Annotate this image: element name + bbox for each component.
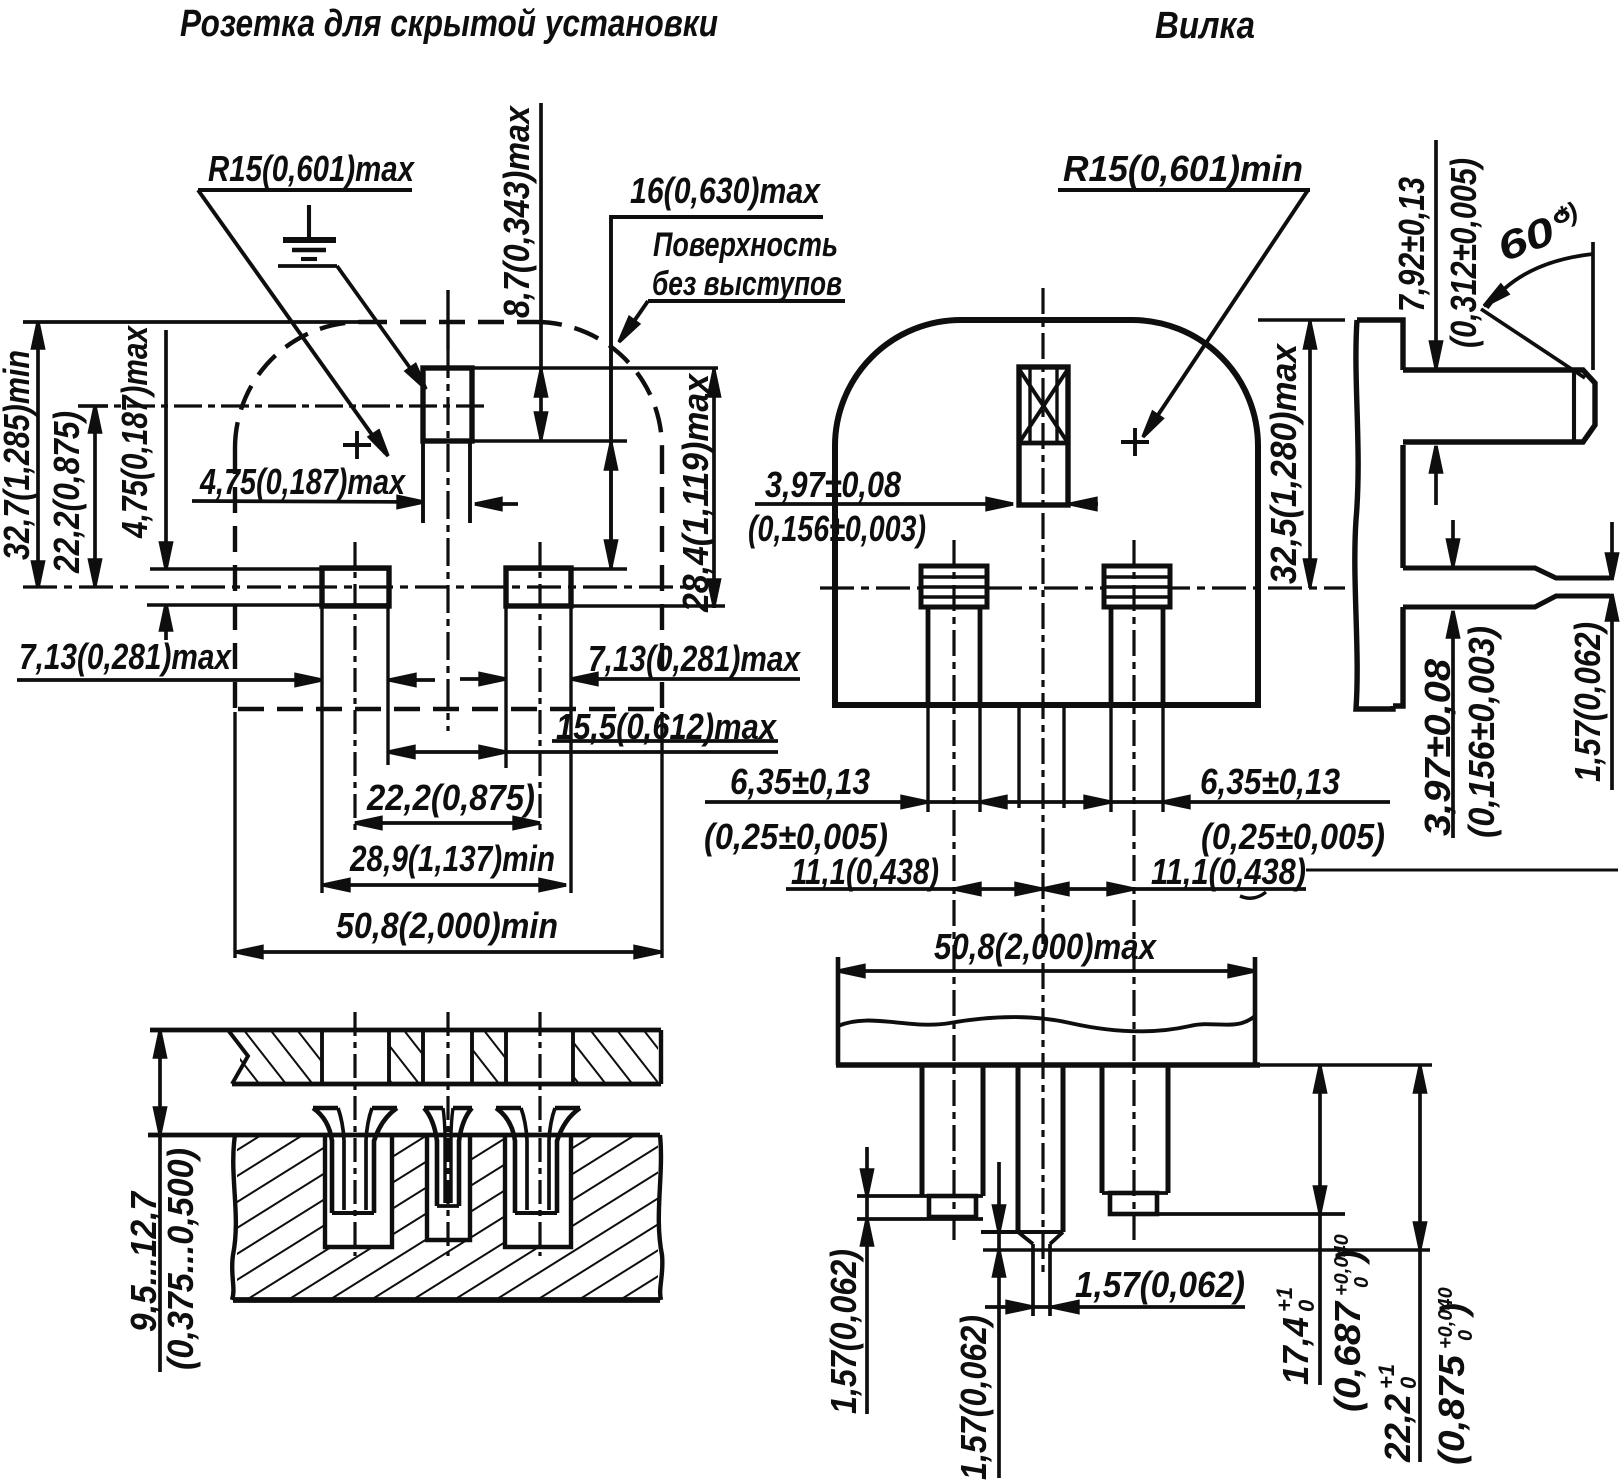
plug horizontal centerline xyxy=(820,586,1345,589)
wall plate outline xyxy=(150,1028,661,1033)
svg-text:22,2: 22,2 xyxy=(1377,1394,1418,1463)
plug body bottom view xyxy=(836,957,841,1065)
svg-text:+0,040: +0,040 xyxy=(1435,1287,1457,1349)
svg-text:22,2(0,875): 22,2(0,875) xyxy=(46,411,87,574)
svg-text:без выступов: без выступов xyxy=(652,265,842,303)
slot walls through plate xyxy=(320,1030,324,1084)
socket outline dashed dome xyxy=(235,322,662,712)
svg-text:0: 0 xyxy=(1294,1299,1319,1312)
svg-text:(0,875: (0,875 xyxy=(1431,1354,1472,1465)
svg-text:1,57(0,062): 1,57(0,062) xyxy=(1075,1264,1245,1305)
svg-text:1,57(0,062): 1,57(0,062) xyxy=(823,1249,864,1414)
svg-text:32,5(1,280)max: 32,5(1,280)max xyxy=(1263,342,1304,584)
svg-text:4,75(0,187)max: 4,75(0,187)max xyxy=(114,324,155,538)
svg-text:Поверхность: Поверхность xyxy=(653,226,838,264)
cavity left xyxy=(325,1135,392,1247)
svg-text:(0,312±0,005): (0,312±0,005) xyxy=(1443,158,1484,348)
slot centerlines vertical xyxy=(353,542,356,835)
svg-text:(0,156±0,003): (0,156±0,003) xyxy=(1461,626,1502,838)
top extension line for 32,5 xyxy=(1258,318,1345,321)
section: wall plate hatched xyxy=(240,1032,322,1082)
centre cross of socket corner radius xyxy=(343,443,371,447)
svg-text:(0,687: (0,687 xyxy=(1327,1300,1368,1412)
svg-text:32,7(1,285)min: 32,7(1,285)min xyxy=(0,350,37,560)
earth slot of socket xyxy=(423,366,718,369)
section centerlines xyxy=(353,1012,356,1256)
svg-text:8,7(0,343)max: 8,7(0,343)max xyxy=(496,104,537,318)
svg-text:22,2(0,875): 22,2(0,875) xyxy=(366,777,535,818)
svg-text:1,57(0,062): 1,57(0,062) xyxy=(1567,622,1608,782)
centre cross of plug corner radius xyxy=(1121,440,1149,444)
svg-text:50,8(2,000)min: 50,8(2,000)min xyxy=(336,905,558,946)
extension sides of socket to 50,8 dimension xyxy=(233,712,236,958)
left pin of plug xyxy=(921,566,987,607)
svg-text:7,92±0,13: 7,92±0,13 xyxy=(1391,177,1432,312)
left pin bottom view xyxy=(920,1065,925,1196)
cavity right xyxy=(505,1135,571,1247)
svg-text:28,9(1,137)min: 28,9(1,137)min xyxy=(349,838,555,879)
contact tube left xyxy=(313,1108,397,1213)
svg-text:9,5...12,7: 9,5...12,7 xyxy=(123,1190,164,1332)
ground symbol xyxy=(283,205,336,259)
socket body outline xyxy=(148,1133,660,1138)
cavity middle xyxy=(427,1135,470,1240)
earth pin of plug xyxy=(1019,367,1068,505)
contact tube right xyxy=(496,1108,580,1213)
leader to R15 centre xyxy=(198,190,385,453)
svg-text:R15(0,601)max: R15(0,601)max xyxy=(208,148,416,189)
svg-text:Вилка: Вилка xyxy=(1155,5,1255,47)
svg-text:+0,040: +0,040 xyxy=(1331,1234,1353,1296)
top extension line xyxy=(23,320,365,324)
right pin of plug xyxy=(1104,566,1170,607)
earth pin bottom view xyxy=(1016,1065,1021,1232)
left pin centerline xyxy=(952,540,955,1240)
svg-text:11,1(0,438): 11,1(0,438) xyxy=(791,851,939,892)
earth pin side view xyxy=(1403,370,1595,442)
left slot of socket xyxy=(150,567,389,570)
svg-text:1,57(0,062): 1,57(0,062) xyxy=(953,1315,994,1480)
svg-text:7,13(0,281)max: 7,13(0,281)max xyxy=(588,638,802,679)
svg-text:R15(0,601)min: R15(0,601)min xyxy=(1063,148,1303,189)
svg-text:(0,156±0,003): (0,156±0,003) xyxy=(748,508,926,549)
pin edge extension lines below plug xyxy=(926,707,929,812)
svg-text:28,4(1,119)max: 28,4(1,119)max xyxy=(675,372,716,613)
svg-text:16(0,630)max: 16(0,630)max xyxy=(630,170,822,211)
svg-text:11,1(0,438): 11,1(0,438) xyxy=(1151,851,1306,892)
earth pin centerline xyxy=(1041,288,1044,1272)
right pin bottom view xyxy=(1100,1065,1105,1193)
svg-text:0: 0 xyxy=(1351,1277,1373,1288)
svg-text:6,35±0,13: 6,35±0,13 xyxy=(1200,761,1340,802)
slot extension lines downward xyxy=(320,606,323,893)
svg-text:0: 0 xyxy=(1455,1330,1477,1341)
ground leader to earth slot xyxy=(278,264,337,268)
svg-text:0: 0 xyxy=(1396,1376,1421,1389)
svg-text:7,13(0,281)max: 7,13(0,281)max xyxy=(19,636,233,677)
svg-text:6,35±0,13: 6,35±0,13 xyxy=(730,761,870,802)
svg-text:(0,375...0,500): (0,375...0,500) xyxy=(160,1148,201,1370)
svg-text:17,4: 17,4 xyxy=(1275,1317,1316,1385)
contact tube middle xyxy=(424,1108,472,1206)
lower pin side view xyxy=(1403,568,1610,607)
right slot of socket xyxy=(506,567,627,570)
dimension line 8,7 xyxy=(539,103,543,441)
side view flange xyxy=(1355,320,1403,709)
svg-text:50,8(2,000)max: 50,8(2,000)max xyxy=(934,926,1158,967)
socket body block hatched with cavities xyxy=(237,1137,658,1298)
plug body outline xyxy=(835,320,1258,705)
svg-text:3,97±0,08: 3,97±0,08 xyxy=(765,464,901,505)
right pin centerline xyxy=(1132,540,1135,1240)
svg-text:4,75(0,187)max: 4,75(0,187)max xyxy=(199,461,406,502)
earth slot centerline xyxy=(446,290,449,350)
svg-text:Розетка для скрытой установки: Розетка для скрытой установки xyxy=(180,3,718,45)
plug face line xyxy=(836,1062,1260,1068)
socket horizontal centerline xyxy=(23,585,700,588)
